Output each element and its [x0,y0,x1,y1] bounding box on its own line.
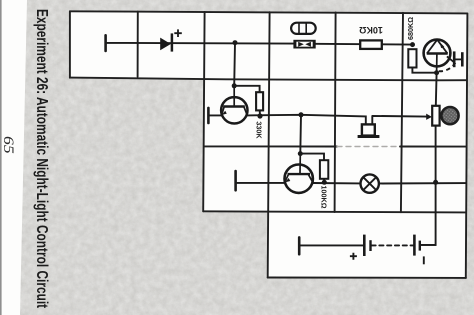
photocell knob [441,107,458,124]
junction dots [232,40,439,185]
wire battery right to pot lead [420,244,436,246]
wire 330K bottom lead [259,110,261,116]
node terminal T4 battery [298,237,301,254]
svg-text:330K: 330K [255,121,264,139]
switch S1 crossed box [293,40,315,49]
wire pot lead down to battery [420,73,437,245]
battery B1 cell plates [350,235,424,265]
wire 100K bottom lead [323,179,325,183]
transistor Q3 [424,40,463,73]
wire Q1 base drop [233,43,236,86]
earphone J1 link [454,58,462,60]
label + (battery) [350,253,357,260]
earphone J1 bar2 [461,52,464,66]
wire row2 (Q1 to transducer) [247,115,366,125]
resistor R4 100K body [320,160,328,179]
wire Q2 base drop [299,115,302,154]
wire row3 left (terminal to Q2) [236,182,284,184]
caption text [33,9,50,308]
node terminal T1 row1 [104,35,107,51]
lamp L1 [361,174,379,192]
svg-text:10KΩ: 10KΩ [359,25,383,35]
resistor R3 330K body [256,92,263,110]
frame vertical x268 [268,12,270,277]
label + (diode polarity) [174,29,182,37]
wire battery row [299,244,364,246]
frame vertical x204 [203,12,204,211]
white book margin left [0,0,27,315]
node terminal T2 row2 [207,108,210,123]
wire row3 (lamp to right edge) [379,182,467,184]
white panel band B (middle) [203,78,466,212]
wire Q3 emitter to earphone [447,56,454,62]
wire [314,43,413,46]
node row1/Q1 [233,40,238,45]
node row2/Q2 [299,112,304,117]
frame top border [70,11,467,13]
frame vertical x334 [335,13,336,213]
transducer E1 (electromagnet) [358,124,380,136]
node Q2 base/100K [298,151,303,156]
frame vertical right edge x467 [466,13,468,277]
frame horizontal border y146 left [204,145,337,147]
dashed arc light indicator [439,61,456,71]
arrow Q3 emitter [440,42,445,48]
diode D1 [160,29,182,51]
node 680K top [410,42,415,47]
page number 65 [0,136,16,154]
node Q3 base [434,70,439,75]
frame vertical x401 [401,13,403,212]
wire 330K branch [234,86,259,92]
frame vertical x137 [137,12,139,77]
node terminal T3 row3 [234,171,237,190]
frame bottom border y277 [268,277,466,279]
wire row1 y43 [106,42,294,45]
node 330K bottom [257,113,262,118]
wire 680K bottom to Q3 [412,68,436,73]
node pot/row3 [433,180,438,185]
earphone J1 bar1 [453,51,456,67]
frame horizontal border y76 [70,78,466,81]
wire 100K branch [300,154,324,161]
resistor R1 10K body [360,40,382,49]
wire row3 (Q2 to lamp) [313,182,361,184]
label - (battery, rotated) [423,256,425,264]
svg-text:680KΩ: 680KΩ [406,17,415,40]
capacitor C1 capsule [291,23,316,34]
wire row2 left (terminal to Q1) [208,114,221,116]
node Q1 base/330K [232,83,237,88]
white panel band A (top) [70,11,467,80]
frame horizontal border y146 right [400,146,467,148]
node 100K bottom [322,180,327,185]
frame vertical x68 [69,11,71,77]
white panel band C (battery, bottom) [268,212,466,278]
resistor R2 680K body [408,49,416,67]
svg-text:100KΩ: 100KΩ [319,186,328,209]
frame horizontal border y146 faded [337,146,400,148]
transistor Q1 [221,86,247,124]
frame horizontal border y212 [203,211,466,212]
wire row2 right (transducer to pot arrow) [372,116,426,125]
potentiometer VR1 body [426,106,458,126]
transistor Q2 [284,154,313,193]
scan edge line [0,0,2,315]
wire battery dashed link [372,244,414,246]
